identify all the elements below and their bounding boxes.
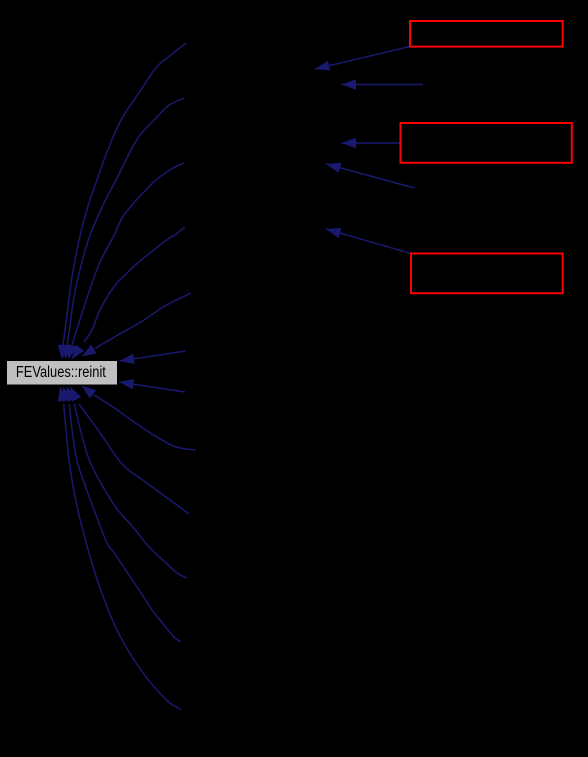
edge b4: caller curve into FEValues::reinit [63,387,181,643]
node FEValues::reinit (current function, gray box) [7,361,118,386]
edge f: straight edge into node right side upper [120,351,186,364]
edge t3: caller curve into FEValues::reinit [67,163,184,360]
edge b: edge between hidden nodes (horizontal upper) [342,79,424,89]
edge t4: caller curve into FEValues::reinit [72,227,186,360]
edge a: edge from red box 1 to hidden caller [315,47,410,71]
edge d: edge between hidden nodes (diagonal) [326,163,415,188]
edge b5: caller curve into FEValues::reinit [58,387,181,711]
edge b1: caller curve into FEValues::reinit [82,386,197,451]
edge g: straight edge into node right side lower [119,379,185,392]
edge b2: caller curve into FEValues::reinit [70,387,189,515]
edge b3: caller curve into FEValues::reinit [67,387,188,579]
edge c: edge from red box 2 to hidden caller [342,138,401,148]
red box 2: truncated caller node (middle right) [401,123,572,163]
red box 1: truncated caller node (top right) [410,21,563,47]
edge t2: caller curve into FEValues::reinit [62,98,184,360]
svg-text:FEValues::reinit: FEValues::reinit [16,364,107,381]
edge t5: caller curve into FEValues::reinit [82,293,192,357]
edge t1: caller curve into FEValues::reinit [58,43,186,360]
red box 3: truncated caller node (lower right) [411,254,563,294]
edge e: edge from red box 3 to hidden caller [326,228,411,254]
